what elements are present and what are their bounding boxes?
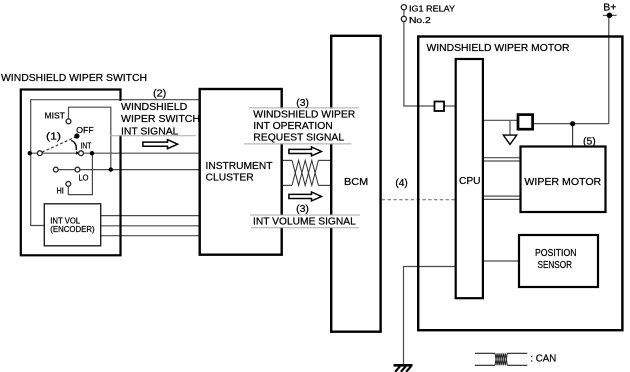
- wire CPU to connector square: [483, 119, 518, 121]
- arrow int volume signal: [289, 192, 322, 201]
- svg-text:IG1 RELAY: IG1 RELAY: [409, 5, 456, 14]
- wire LO line: [56, 169, 200, 171]
- wire CAN pair bottom: [282, 184, 292, 186]
- arrow (2) signal: [143, 140, 178, 149]
- wire INT line: [30, 152, 200, 154]
- wire CAN pair top: [282, 159, 292, 161]
- label C rules: [250, 214, 360, 216]
- node (4) dashed line: [382, 199, 456, 201]
- svg-text:OFF: OFF: [76, 126, 94, 135]
- svg-text:INT: INT: [81, 142, 92, 151]
- junction dot INT: [90, 151, 94, 155]
- BCM box: [331, 36, 380, 332]
- svg-text:(3): (3): [296, 204, 309, 215]
- IG1 relay circle 2: [401, 16, 406, 21]
- svg-text:(5): (5): [583, 137, 596, 148]
- contact circle LO b: [75, 167, 80, 172]
- svg-text:No.2: No.2: [409, 16, 431, 25]
- wire stub to triangle: [509, 120, 511, 135]
- svg-text:(2): (2): [153, 89, 166, 100]
- B+ terminal tick: [603, 14, 617, 16]
- CAN legend symbol: [475, 353, 527, 365]
- svg-text:MIST: MIST: [45, 112, 65, 121]
- svg-text:CPU: CPU: [459, 176, 481, 187]
- contact circle INT: [79, 151, 84, 156]
- wire encoder 2: [101, 225, 200, 227]
- IG1 relay circle 1: [401, 5, 406, 10]
- OFF contact dot: [74, 133, 79, 138]
- wires CPU to wiper motor: [483, 157, 521, 159]
- svg-text:B+: B+: [603, 3, 616, 14]
- position sensor box: [519, 235, 598, 287]
- svg-text:LO: LO: [79, 174, 89, 183]
- junction dot LO: [109, 167, 113, 171]
- wire encoder 1: [101, 215, 200, 217]
- svg-text:WINDSHIELD WIPER MOTOR: WINDSHIELD WIPER MOTOR: [427, 43, 570, 54]
- contact circle HI: [66, 182, 71, 187]
- windshield wiper switch box: [21, 90, 121, 256]
- svg-text:WIPER MOTOR: WIPER MOTOR: [524, 177, 601, 188]
- junction dot common: [28, 151, 32, 155]
- ground: [394, 365, 413, 372]
- switch dashed arm: [42, 137, 75, 152]
- wire junction to wiper motor: [572, 124, 574, 147]
- svg-text:BCM: BCM: [344, 177, 368, 188]
- svg-text:(ENCODER): (ENCODER): [50, 225, 95, 234]
- CAN twisted pair symbol: [292, 160, 318, 185]
- wire CPU to position sensor: [483, 260, 519, 262]
- wire HI branch: [68, 153, 92, 194]
- wiper motor box: [521, 147, 606, 213]
- triangle connector: [503, 135, 516, 144]
- contact circle LO a: [53, 167, 58, 172]
- svg-text:WINDSHIELD WIPER: WINDSHIELD WIPER: [253, 110, 355, 121]
- svg-text:INSTRUMENT: INSTRUMENT: [206, 161, 273, 172]
- svg-text:: CAN: : CAN: [530, 354, 556, 365]
- svg-text:REQUEST SIGNAL: REQUEST SIGNAL: [253, 132, 344, 143]
- wire connector to B+: [533, 123, 609, 125]
- svg-text:WINDSHIELD WIPER SWITCH: WINDSHIELD WIPER SWITCH: [1, 73, 147, 84]
- B+ terminal dot: [607, 13, 613, 19]
- CPU box: [456, 59, 483, 298]
- wire MIST branch: [69, 107, 111, 169]
- arrow (3) request signal: [289, 147, 322, 156]
- windshield wiper motor box: [418, 37, 622, 331]
- svg-text:INT SIGNAL: INT SIGNAL: [121, 126, 179, 137]
- svg-text:WIPER SWITCH: WIPER SWITCH: [121, 114, 200, 125]
- svg-text:(4): (4): [395, 178, 407, 189]
- connector square (IG1): [435, 102, 445, 112]
- connector square (B+): [518, 115, 533, 130]
- rotation arc (1): [71, 141, 76, 151]
- INT VOL encoder box: [44, 204, 100, 246]
- wire encoder 3: [101, 235, 200, 237]
- label A bottom rule: [110, 135, 196, 137]
- svg-text:POSITION: POSITION: [535, 248, 577, 259]
- svg-text:INT VOLUME SIGNAL: INT VOLUME SIGNAL: [253, 217, 356, 228]
- label B white bg: [244, 109, 359, 144]
- svg-text:CLUSTER: CLUSTER: [206, 172, 254, 183]
- rotation arrowhead: [76, 151, 80, 155]
- label B rules: [249, 107, 359, 109]
- label C white bg: [250, 216, 360, 228]
- svg-text:(1): (1): [46, 131, 61, 142]
- svg-text:SENSOR: SENSOR: [538, 260, 573, 271]
- wire CPU to ground: [404, 267, 456, 365]
- wire B+ vertical: [608, 15, 610, 123]
- svg-text:WINDSHIELD: WINDSHIELD: [121, 102, 187, 113]
- contact circle MIST: [66, 119, 71, 124]
- junction dot B+ line: [570, 121, 575, 126]
- svg-text:HI: HI: [57, 186, 64, 195]
- svg-text:(3): (3): [296, 98, 309, 109]
- label A white bg: [112, 101, 197, 135]
- wire IG1 relay to CPU: [404, 22, 434, 107]
- contact circle common: [37, 151, 42, 156]
- svg-text:INT VOL: INT VOL: [50, 216, 80, 225]
- wire B (switch to instrument cluster, top): [31, 100, 200, 226]
- instrument cluster box: [200, 89, 282, 255]
- svg-text:INT OPERATION: INT OPERATION: [253, 121, 332, 132]
